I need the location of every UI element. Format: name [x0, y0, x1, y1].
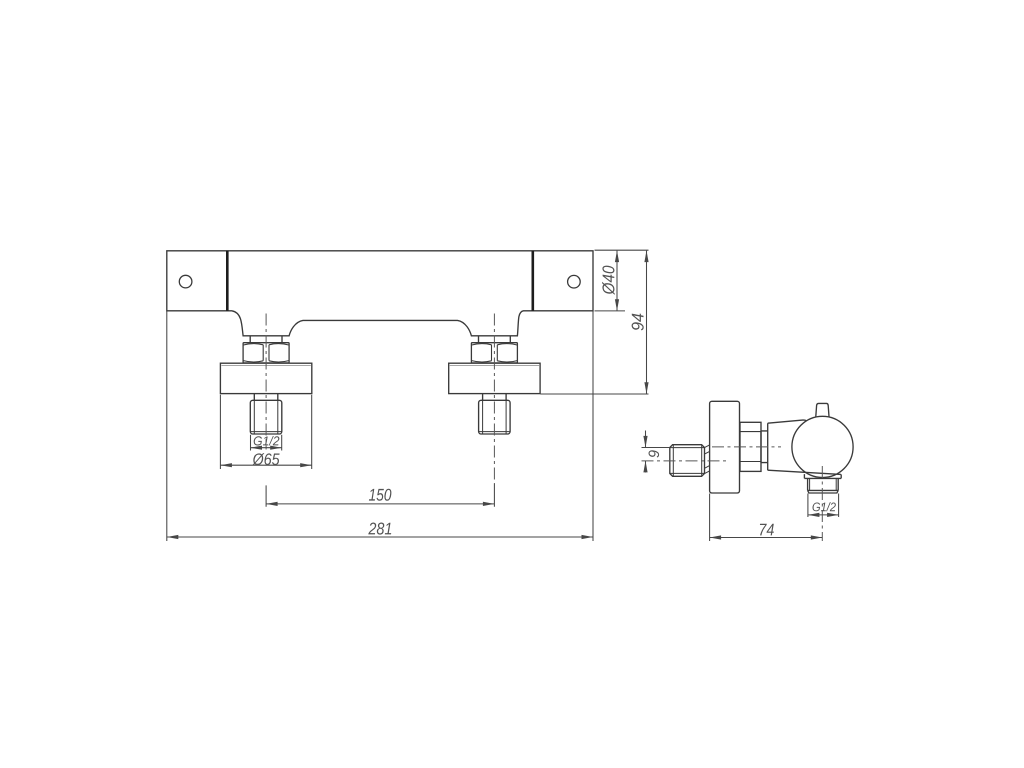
label 150 [369, 489, 392, 501]
right valve: hex nut [471, 343, 517, 363]
side view: hex axis centerline [712, 446, 781, 448]
side view: outlet centerline [821, 466, 823, 541]
dim G1/2 left: extension lines [251, 435, 282, 451]
left mounting hole [179, 275, 192, 288]
left valve: flange body [220, 363, 311, 393]
label 74 [760, 524, 774, 536]
side view: body bottom edge to outlet [768, 470, 841, 474]
left valve: threaded port [250, 400, 281, 434]
right valve centerline [493, 314, 495, 485]
dim G1/2 right: extension lines [808, 494, 839, 518]
arrows Ø65 [220, 463, 232, 467]
dim 150: extension ticks [266, 484, 494, 507]
arrows 150 [266, 502, 278, 506]
side view: outlet collar [804, 474, 841, 478]
dim 74: extension line [709, 494, 711, 542]
label Ø40 [602, 266, 615, 295]
label G1/2 right [813, 502, 836, 511]
front view: mixer bar outline [167, 251, 593, 336]
dim 150: dimension line [266, 503, 494, 505]
side view: hex nut [740, 422, 761, 471]
right valve: port collar [483, 394, 507, 401]
side view: top button stub [816, 403, 829, 416]
side view: inlet stub thread lines [670, 445, 704, 476]
side view: inlet stub [670, 445, 705, 477]
side view: outlet body [808, 478, 839, 493]
dim Ø40: extension lines [595, 250, 649, 311]
side view: body cone top edge [768, 420, 807, 423]
right valve: flange body [449, 363, 540, 393]
left valve: port collar [254, 394, 277, 401]
dim Ø65: extension lines [220, 395, 311, 469]
dim 74: dimension line [710, 537, 823, 539]
label Ø65 [252, 453, 279, 465]
dim 9: extension line [642, 447, 670, 449]
label 94 [632, 314, 644, 331]
side view: valve knob circle [792, 416, 853, 477]
arrows 281 [167, 535, 179, 539]
dim Ø65: dimension line [220, 464, 311, 466]
left valve centerline [265, 314, 267, 450]
arrows G1/2 right [808, 513, 820, 517]
dim 9: dimension line tails [645, 431, 647, 473]
label 9 [649, 450, 660, 457]
right plate divider (thick) [531, 251, 534, 311]
side view: wall plate [710, 401, 740, 493]
dim 94: bottom extension line [540, 393, 648, 395]
side view: thread hatch between stub and plate [705, 445, 710, 474]
dim 94: dimension line [646, 251, 648, 394]
label 281 [368, 523, 391, 535]
right valve: boss collar [479, 336, 511, 342]
left valve: hex nut [243, 343, 289, 363]
arrows 94 [644, 251, 648, 263]
right mounting hole [568, 275, 581, 288]
arrows 74 [710, 535, 722, 539]
left valve: boss collar [250, 336, 282, 342]
arrows Ø40 [615, 251, 619, 263]
right valve: threaded port [479, 400, 511, 434]
side view: collar between hex and body [761, 423, 768, 470]
side view: outlet thread lines [810, 478, 837, 490]
dim Ø40: dimension line [616, 251, 618, 311]
arrows 9 [643, 436, 647, 448]
label G1/2 left [254, 436, 280, 446]
arrows G1/2 left [251, 446, 263, 450]
dim G1/2 left: dimension line [251, 447, 282, 449]
dim 281: extension lines [167, 312, 593, 542]
dim G1/2 right: dimension line [808, 514, 839, 516]
left plate divider (thick) [226, 251, 229, 311]
side view: stub centerline [642, 460, 728, 462]
dim 281: dimension line [167, 536, 593, 538]
